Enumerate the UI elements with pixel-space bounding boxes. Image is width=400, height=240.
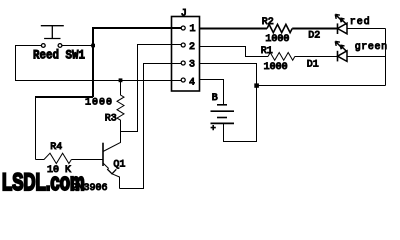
thick wire bottom horizontal	[35, 96, 93, 98]
resistor R2	[267, 24, 292, 32]
svg-text:J: J	[181, 9, 187, 20]
reed switch SW1 left contact	[41, 44, 45, 48]
LED D2 cathode bar	[337, 23, 339, 34]
battery B plates	[211, 105, 235, 124]
pin 2 circle	[181, 43, 185, 47]
reed switch SW1 plunger	[41, 26, 64, 39]
reed switch SW1 right contact	[58, 44, 62, 48]
wire pin3 right to junction	[200, 64, 257, 86]
cathode return bus	[257, 85, 386, 87]
wire R1 to D1	[295, 56, 337, 58]
svg-text:D1: D1	[307, 60, 319, 71]
wire down to R4	[35, 97, 37, 160]
transistor Q1 emitter arrow	[107, 169, 116, 174]
pin 3 circle	[181, 61, 185, 65]
wire emitter to pin3	[120, 64, 182, 189]
LED D1 triangle	[338, 51, 348, 62]
junction dot at R3 top / pin4 wire	[119, 78, 123, 82]
wire battery bottom to junction	[224, 86, 257, 142]
svg-text:1000: 1000	[85, 97, 112, 108]
wire pin4 right to battery top	[200, 80, 224, 105]
wire collector and R3 bottom to pin2	[121, 45, 182, 132]
svg-text:D2: D2	[308, 31, 320, 42]
resistor R1	[268, 53, 295, 61]
svg-text:Reed SW1: Reed SW1	[33, 48, 85, 63]
resistor R4	[36, 153, 72, 163]
connector J box	[172, 17, 200, 92]
transistor Q1 collector arm	[103, 132, 121, 152]
svg-text:green: green	[355, 42, 387, 53]
wire R4 to base	[71, 159, 103, 161]
wire D2 to right bus	[347, 28, 386, 30]
transistor Q1 base bar	[102, 143, 104, 166]
svg-text:1000: 1000	[265, 34, 289, 45]
svg-text:3: 3	[189, 60, 195, 71]
transistor Q1 emitter arm	[103, 163, 120, 189]
battery plus sign	[211, 125, 216, 130]
thick wire reed node to pin 1	[93, 28, 181, 97]
right bus vertical	[385, 29, 387, 86]
svg-text:red: red	[350, 16, 370, 28]
svg-text:1000: 1000	[264, 62, 288, 73]
LED D1 light arrows	[335, 41, 347, 52]
resistor R3	[117, 81, 124, 132]
LED D1 cathode bar	[337, 51, 339, 62]
svg-text:4: 4	[189, 77, 195, 88]
svg-text:Q1: Q1	[113, 160, 125, 171]
LED D2 triangle	[338, 23, 348, 34]
svg-text:2: 2	[189, 42, 195, 53]
pin 1 circle	[181, 26, 185, 30]
svg-text:B: B	[212, 93, 218, 104]
junction dot pin3/battery/bus	[254, 83, 259, 87]
thick wire R2 to D2	[292, 28, 337, 30]
svg-text:1: 1	[190, 24, 196, 35]
wire pin2 right to R1	[200, 47, 269, 57]
LED D2 light arrows	[335, 14, 347, 24]
svg-text:LSDL.com: LSDL.com	[2, 169, 85, 196]
wire right contact to thick node	[62, 45, 93, 47]
svg-text:R4: R4	[50, 142, 62, 153]
svg-text:R1: R1	[261, 46, 273, 57]
wire D1 to right bus	[347, 56, 386, 58]
pin 4 circle	[181, 78, 185, 82]
svg-text:R2: R2	[262, 17, 274, 28]
junction dot at reed/thick node	[91, 44, 95, 48]
svg-text:R3: R3	[105, 114, 117, 125]
wire left contact to pin4	[16, 46, 182, 81]
thick wire pin1 to R2	[200, 28, 268, 30]
